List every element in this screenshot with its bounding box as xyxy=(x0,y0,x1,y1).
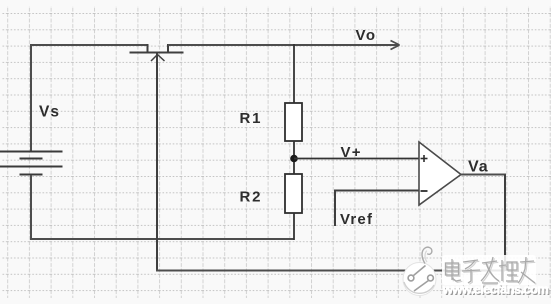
wire left vertical (top rail down to battery +) xyxy=(30,44,32,151)
wire R2 bottom lead xyxy=(293,213,295,240)
Vo output arrow xyxy=(391,41,400,50)
svg-text:Vs: Vs xyxy=(39,103,60,120)
svg-text:R2: R2 xyxy=(240,189,263,206)
wire gate line (Q1 gate down to bottom rail 2) xyxy=(156,54,158,272)
wire left lower vertical (battery - down) xyxy=(30,175,32,240)
svg-text:Vref: Vref xyxy=(340,211,373,228)
transistor Q1 (pass FET) xyxy=(130,44,184,61)
wire Vref stub xyxy=(334,190,336,227)
watermark text www.elecfans.com xyxy=(442,281,550,298)
wire V+ to op-amp + input xyxy=(294,158,419,160)
watermark text 电子发烧友 (stylized glyph strokes) xyxy=(442,255,536,285)
wire R1-R2 middle lead xyxy=(293,141,295,174)
wire bottom rail 2 (gate to Va feedback) xyxy=(156,270,505,272)
op-amp - pin mark xyxy=(421,190,428,192)
wire bottom rail 1 (to R2 bottom) xyxy=(30,238,294,240)
op-amp + pin mark xyxy=(421,155,428,162)
battery B1 (Vs source) xyxy=(0,152,63,175)
node V+ junction dot xyxy=(290,155,298,163)
resistor R1 xyxy=(285,103,302,141)
svg-text:V+: V+ xyxy=(341,144,362,161)
wire Va vertical (output down to bottom rail 2) xyxy=(504,175,506,272)
svg-text:R1: R1 xyxy=(240,110,263,127)
wire top rail left segment (Vs+ to Q1 drain) xyxy=(30,44,148,46)
svg-text:Vo: Vo xyxy=(356,27,377,44)
svg-text:www.elecfans.com: www.elecfans.com xyxy=(442,281,549,296)
wire Vref horizontal to op-amp - input xyxy=(335,190,419,192)
resistor R2 xyxy=(285,174,302,213)
svg-text:Va: Va xyxy=(468,159,489,176)
wire op-amp output xyxy=(461,174,506,176)
watermark logo (elecfans bubble) xyxy=(403,247,436,295)
op-amp U1 xyxy=(419,142,461,205)
wire R1 top lead xyxy=(293,44,295,104)
wire top rail right segment (Q1 source to Vo) xyxy=(168,44,399,46)
